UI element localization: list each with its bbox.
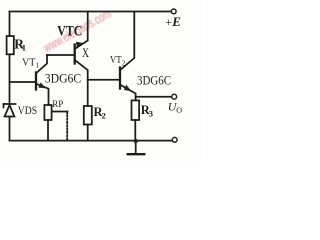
svg-text:1: 1 <box>22 43 26 53</box>
svg-text:E: E <box>171 14 181 29</box>
svg-text:3DG6C: 3DG6C <box>137 73 171 87</box>
svg-text:VT: VT <box>110 54 122 66</box>
svg-text:VT: VT <box>22 56 36 68</box>
svg-text:3: 3 <box>149 109 153 119</box>
svg-text:X: X <box>82 46 89 60</box>
svg-text:+: + <box>165 15 172 29</box>
svg-text:3DG6C: 3DG6C <box>45 72 81 86</box>
svg-text:VTC: VTC <box>57 24 82 40</box>
svg-text:1: 1 <box>35 61 39 70</box>
svg-text:O: O <box>176 106 182 115</box>
svg-text:2: 2 <box>102 111 106 121</box>
svg-text:2: 2 <box>122 58 126 67</box>
svg-text:VDS: VDS <box>18 105 37 117</box>
svg-text:RP: RP <box>52 99 63 109</box>
